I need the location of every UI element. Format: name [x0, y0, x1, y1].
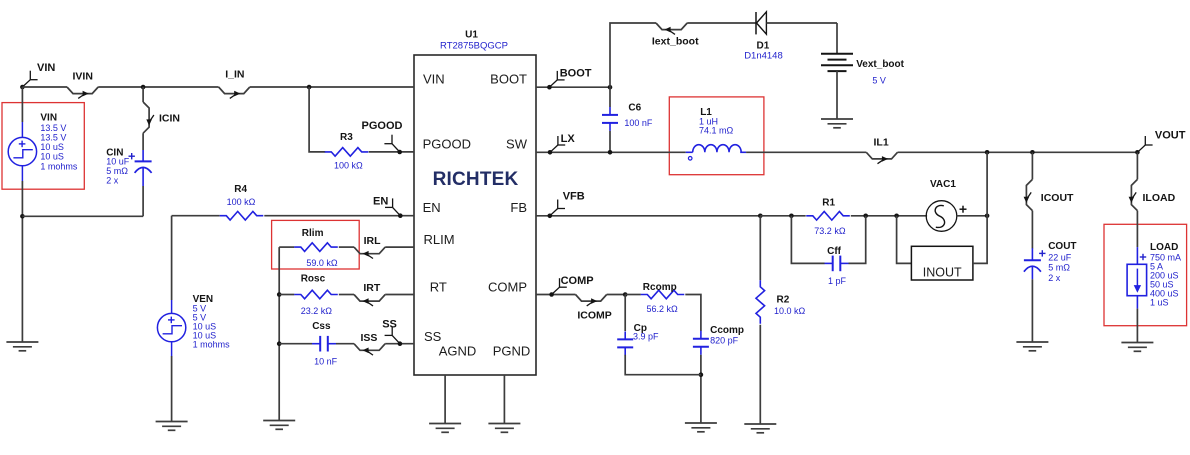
node [397, 150, 402, 155]
svg-text:FB: FB [510, 200, 527, 215]
svg-text:2 x: 2 x [106, 176, 119, 186]
node [985, 150, 990, 155]
wire [536, 294, 576, 296]
svg-text:SS: SS [382, 319, 397, 331]
svg-text:74.1 mΩ: 74.1 mΩ [699, 126, 734, 136]
svg-text:ISS: ISS [361, 332, 378, 344]
current probe IRT [354, 282, 385, 306]
wire [385, 343, 414, 345]
wire [21, 181, 23, 342]
svg-text:RT: RT [430, 280, 447, 295]
wire [536, 215, 760, 217]
svg-text:Rcomp: Rcomp [643, 282, 677, 293]
svg-text:COMP: COMP [488, 280, 527, 295]
wire [369, 151, 414, 153]
net label COMP [552, 275, 594, 295]
wire [171, 356, 173, 422]
wire [610, 23, 656, 87]
svg-text:LOAD: LOAD [1150, 242, 1178, 253]
svg-text:1 mohms: 1 mohms [193, 339, 231, 349]
svg-text:R1: R1 [822, 198, 835, 209]
wire [339, 246, 354, 248]
wire [22, 215, 143, 217]
wire [142, 133, 144, 150]
svg-text:VOUT: VOUT [1155, 129, 1186, 141]
current probe IRL [354, 235, 385, 259]
ground [429, 423, 461, 425]
svg-text:ICOMP: ICOMP [577, 310, 611, 322]
wire [385, 294, 414, 296]
svg-text:13.5 V: 13.5 V [40, 132, 66, 142]
node [985, 214, 990, 219]
resistor R2 [756, 280, 806, 324]
svg-text:PGOOD: PGOOD [423, 137, 471, 152]
svg-text:1 mohms: 1 mohms [40, 162, 78, 172]
wire [1031, 211, 1033, 249]
svg-text:Rlim: Rlim [302, 228, 324, 239]
wire [759, 216, 761, 280]
svg-text:Css: Css [312, 321, 331, 332]
annotation box around Rlim [272, 220, 360, 269]
svg-text:10 uF: 10 uF [106, 157, 130, 167]
ground [1121, 342, 1153, 344]
net label VIN [22, 62, 55, 87]
node [277, 292, 282, 297]
resistor Rosc [294, 274, 338, 317]
wire [171, 216, 173, 300]
svg-text:5 mΩ: 5 mΩ [1048, 263, 1070, 273]
wire [957, 215, 987, 217]
current probe IL1 [866, 137, 897, 164]
svg-text:Rosc: Rosc [301, 274, 326, 285]
node [608, 150, 613, 155]
svg-text:VFB: VFB [563, 191, 585, 203]
current probe ICOMP [576, 295, 612, 322]
wire [22, 86, 67, 88]
node [547, 85, 552, 90]
wire [625, 294, 641, 296]
svg-text:100 kΩ: 100 kΩ [334, 160, 363, 170]
svg-text:10 uS: 10 uS [40, 152, 64, 162]
svg-text:D1n4148: D1n4148 [744, 51, 783, 62]
ground [821, 118, 853, 120]
node [548, 214, 553, 219]
annotation box around L1 [669, 97, 764, 175]
capacitor Cff [825, 246, 849, 286]
wire [897, 216, 912, 264]
wire [250, 86, 414, 88]
svg-text:Iext_boot: Iext_boot [652, 36, 699, 48]
wire [21, 87, 23, 122]
svg-text:IL1: IL1 [874, 137, 889, 149]
annotation box around LOAD [1104, 224, 1187, 325]
svg-text:R4: R4 [234, 184, 247, 195]
wire [746, 151, 866, 153]
node [548, 150, 553, 155]
node [608, 85, 613, 90]
wire [1136, 152, 1138, 179]
svg-text:COUT: COUT [1048, 241, 1076, 252]
svg-text:RT2875BQGCP: RT2875BQGCP [440, 41, 508, 52]
current probe ICOUT [1024, 179, 1074, 210]
svg-text:59.0 kΩ: 59.0 kΩ [306, 258, 338, 268]
wire [98, 86, 218, 88]
net label LX [550, 133, 575, 153]
node [894, 214, 899, 219]
wire [385, 246, 414, 248]
svg-text:VIN: VIN [423, 72, 445, 87]
net label SS [382, 319, 400, 344]
net label VFB [550, 191, 585, 216]
svg-text:AGND: AGND [439, 344, 477, 359]
svg-text:100 nF: 100 nF [624, 118, 653, 128]
node [307, 85, 312, 90]
wire [264, 215, 414, 217]
svg-text:SW: SW [506, 137, 528, 152]
svg-text:RICHTEK: RICHTEK [433, 169, 519, 190]
wire [759, 325, 761, 424]
svg-text:10 uS: 10 uS [40, 142, 64, 152]
svg-text:R2: R2 [777, 295, 790, 306]
diode D1 [744, 12, 783, 62]
net label PGOOD [362, 120, 403, 152]
wire [1136, 309, 1138, 343]
ground [6, 341, 38, 343]
node [863, 214, 868, 219]
svg-text:BOOT: BOOT [490, 72, 527, 87]
wire [609, 87, 611, 107]
ground [156, 421, 188, 423]
node [549, 292, 554, 297]
svg-text:I_IN: I_IN [225, 69, 244, 81]
svg-text:10 nF: 10 nF [314, 357, 338, 367]
node [398, 341, 403, 346]
svg-text:LX: LX [561, 133, 576, 145]
svg-text:2 x: 2 x [1048, 273, 1061, 283]
svg-text:100 kΩ: 100 kΩ [227, 197, 256, 207]
wire [536, 86, 610, 88]
current source LOAD [1127, 242, 1181, 309]
svg-text:ICOUT: ICOUT [1041, 192, 1074, 204]
svg-text:13.5 V: 13.5 V [40, 123, 66, 133]
current probe IVIN [67, 71, 98, 99]
capacitor CIN [106, 147, 151, 186]
svg-text:INOUT: INOUT [923, 266, 962, 280]
current probe I_IN [219, 69, 250, 99]
resistor Rcomp [641, 282, 685, 314]
svg-text:Vext_boot: Vext_boot [856, 59, 904, 70]
net label BOOT [549, 68, 591, 88]
wire [279, 343, 312, 345]
wire [851, 215, 927, 217]
svg-text:5 mΩ: 5 mΩ [106, 166, 128, 176]
wire [536, 151, 686, 153]
resistor Rlim [294, 228, 338, 268]
svg-text:5 V: 5 V [872, 76, 886, 86]
ground [744, 423, 776, 425]
annotation box around VIN source [2, 103, 84, 190]
svg-text:RLIM: RLIM [424, 232, 455, 247]
battery Vext_boot [821, 54, 905, 86]
svg-text:23.2 kΩ: 23.2 kΩ [301, 306, 333, 316]
wire [760, 215, 805, 217]
wire [609, 131, 611, 152]
svg-text:VIN: VIN [40, 112, 57, 123]
svg-text:Cff: Cff [827, 246, 842, 257]
current probe Iext_boot [652, 23, 699, 48]
net label EN [373, 196, 400, 216]
wire [172, 215, 220, 217]
capacitor COUT [1024, 241, 1077, 283]
svg-text:22 uF: 22 uF [1048, 252, 1072, 262]
ground [263, 420, 295, 422]
wire [849, 216, 866, 264]
wire [142, 186, 144, 216]
wire [898, 151, 1138, 153]
svg-text:10.0 kΩ: 10.0 kΩ [774, 306, 806, 316]
inductor L1 [686, 107, 746, 160]
svg-text:PGOOD: PGOOD [362, 120, 403, 132]
wire [700, 355, 702, 423]
wire [625, 355, 701, 375]
wire [1031, 279, 1033, 342]
ground [488, 423, 520, 425]
svg-text:BOOT: BOOT [560, 68, 592, 80]
wire [687, 22, 756, 24]
wire [836, 23, 838, 54]
wire [685, 295, 701, 332]
capacitor Cp [617, 323, 659, 355]
svg-text:3.9 pF: 3.9 pF [633, 331, 659, 341]
svg-text:56.2 kΩ: 56.2 kΩ [647, 304, 679, 314]
current probe ISS [354, 332, 385, 355]
svg-text:COMP: COMP [561, 275, 594, 287]
node [789, 214, 794, 219]
ac source VAC1 [926, 179, 966, 231]
svg-text:C6: C6 [628, 103, 641, 114]
capacitor Css [312, 321, 338, 367]
wire [607, 294, 626, 296]
wire [1136, 211, 1138, 248]
current probe ILOAD [1129, 179, 1176, 210]
svg-text:EN: EN [423, 200, 441, 215]
wire [503, 375, 505, 424]
wire [1031, 152, 1033, 179]
ground [1016, 341, 1048, 343]
wire [278, 247, 280, 420]
ground [685, 422, 717, 424]
probe INOUT [911, 246, 973, 280]
svg-text:VAC1: VAC1 [930, 179, 956, 190]
node [398, 213, 403, 218]
capacitor Ccomp [693, 325, 744, 355]
node [141, 85, 146, 90]
node [20, 85, 25, 90]
resistor R4 [220, 184, 264, 220]
node [20, 214, 25, 219]
svg-text:VIN: VIN [37, 62, 55, 74]
node [699, 372, 704, 377]
wire [836, 71, 838, 119]
wire [336, 343, 354, 345]
svg-text:PGND: PGND [493, 344, 531, 359]
svg-text:R3: R3 [340, 132, 353, 143]
svg-text:SS: SS [424, 329, 442, 344]
voltage source VEN [157, 294, 230, 356]
svg-text:1 pF: 1 pF [828, 276, 847, 286]
svg-text:1 uS: 1 uS [1150, 298, 1169, 308]
current probe ICIN [143, 102, 180, 133]
op-amp U1 RT2875BQGCP IC body [414, 30, 536, 376]
node [623, 292, 628, 297]
voltage source VIN [8, 112, 78, 181]
svg-text:U1: U1 [465, 30, 478, 41]
svg-text:820 pF: 820 pF [710, 336, 739, 346]
svg-text:ILOAD: ILOAD [1143, 192, 1176, 204]
wire [766, 22, 837, 24]
wire [339, 294, 354, 296]
svg-text:IVIN: IVIN [73, 71, 93, 83]
wire [309, 87, 325, 152]
node [1030, 150, 1035, 155]
resistor R3 [325, 132, 369, 170]
capacitor C6 [602, 103, 653, 131]
node [758, 214, 763, 219]
svg-text:IRT: IRT [363, 282, 381, 294]
node [277, 341, 282, 346]
wire [279, 246, 294, 248]
svg-text:EN: EN [373, 196, 388, 208]
net label VOUT [1137, 129, 1185, 152]
wire [279, 294, 294, 296]
node [1135, 150, 1140, 155]
svg-text:ICIN: ICIN [159, 113, 180, 125]
resistor R1 [806, 198, 850, 236]
wire [624, 295, 626, 332]
wire [791, 216, 824, 264]
wire [973, 152, 987, 263]
wire [142, 87, 144, 102]
svg-text:IRL: IRL [364, 235, 382, 247]
svg-text:Ccomp: Ccomp [710, 325, 744, 336]
svg-text:73.2 kΩ: 73.2 kΩ [814, 226, 846, 236]
wire [444, 375, 446, 424]
